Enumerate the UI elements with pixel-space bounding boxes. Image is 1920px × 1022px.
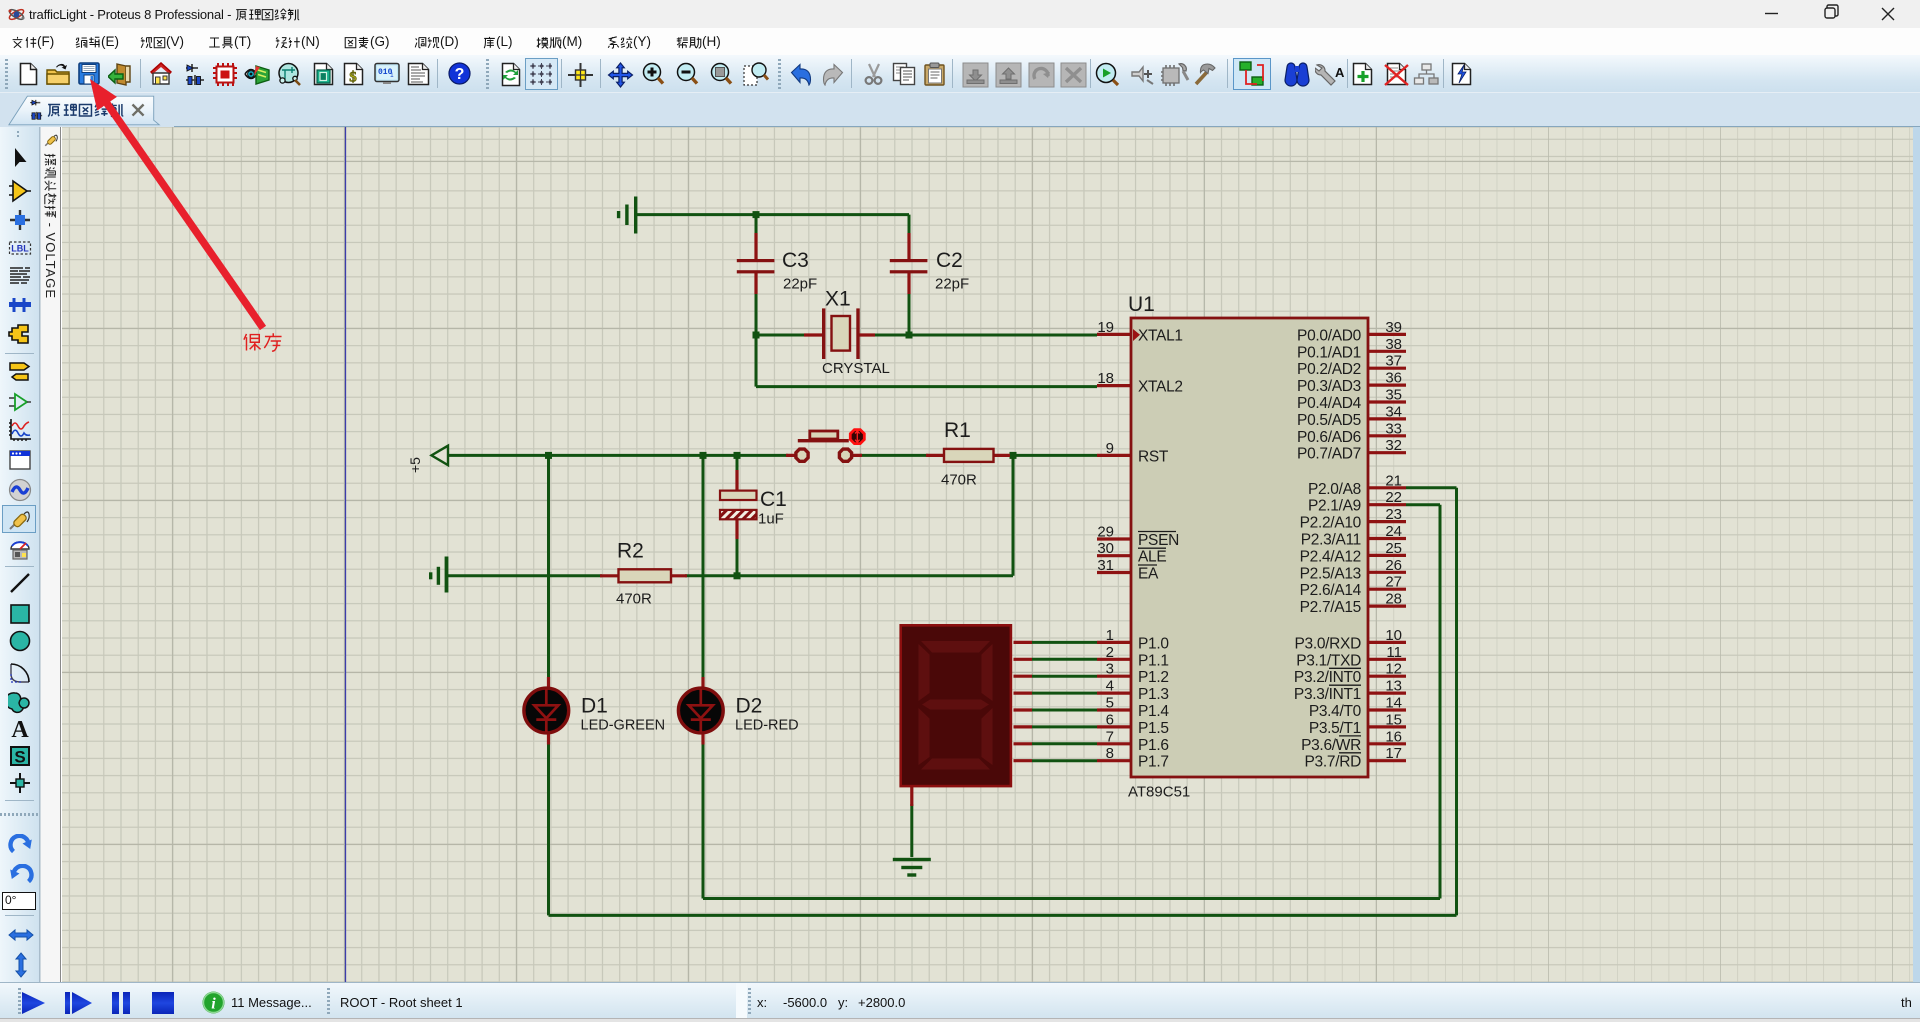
svg-text:P0.7/AD7: P0.7/AD7 (1297, 446, 1361, 463)
svg-text:XTAL1: XTAL1 (1138, 327, 1183, 344)
svg-text:R1: R1 (944, 419, 971, 442)
svg-text:28: 28 (1385, 591, 1402, 608)
svg-text:PSEN: PSEN (1138, 532, 1179, 549)
svg-text:C3: C3 (782, 249, 809, 272)
svg-text:S: S (14, 748, 25, 767)
svg-text:1: 1 (1106, 627, 1114, 644)
svg-text:22pF: 22pF (935, 276, 969, 293)
svg-text:27: 27 (1385, 574, 1402, 591)
svg-text:P3.2/INT0: P3.2/INT0 (1294, 669, 1362, 686)
svg-text:P0.6/AD6: P0.6/AD6 (1297, 429, 1361, 446)
svg-text:22: 22 (1385, 489, 1402, 506)
svg-text:37: 37 (1385, 353, 1402, 370)
svg-text:P0.1/AD1: P0.1/AD1 (1297, 344, 1361, 361)
svg-text:C2: C2 (936, 249, 963, 272)
svg-text:D1: D1 (581, 695, 608, 718)
svg-text:22pF: 22pF (783, 276, 817, 293)
svg-text:34: 34 (1385, 403, 1402, 420)
svg-text:P3.0/RXD: P3.0/RXD (1294, 635, 1361, 652)
svg-text:38: 38 (1385, 336, 1402, 353)
svg-text:D2: D2 (736, 695, 763, 718)
svg-text:21: 21 (1385, 472, 1402, 489)
svg-text:P2.6/A14: P2.6/A14 (1300, 582, 1362, 599)
svg-text:LED-RED: LED-RED (735, 718, 799, 734)
svg-text:18: 18 (1097, 370, 1114, 387)
svg-text:23: 23 (1385, 506, 1402, 523)
svg-text:17: 17 (1385, 745, 1402, 762)
svg-text:P1.3: P1.3 (1138, 686, 1169, 703)
svg-text:26: 26 (1385, 557, 1402, 574)
svg-text:2: 2 (1106, 644, 1114, 661)
svg-text:5: 5 (1106, 695, 1114, 712)
svg-text:35: 35 (1385, 387, 1402, 404)
svg-text:25: 25 (1385, 540, 1402, 557)
svg-text:P3.5/T1: P3.5/T1 (1309, 720, 1361, 737)
svg-text:29: 29 (1097, 524, 1114, 541)
svg-text:39: 39 (1385, 319, 1402, 336)
svg-text:P2.7/A15: P2.7/A15 (1300, 599, 1361, 616)
svg-text:AT89C51: AT89C51 (1128, 784, 1190, 801)
svg-text:31: 31 (1097, 557, 1114, 574)
svg-text:30: 30 (1097, 540, 1114, 557)
svg-text:1uF: 1uF (758, 511, 784, 528)
svg-text:P1.7: P1.7 (1138, 754, 1169, 771)
svg-text:P2.3/A11: P2.3/A11 (1301, 532, 1361, 549)
svg-text:XTAL2: XTAL2 (1138, 379, 1183, 396)
svg-text:P3.3/INT1: P3.3/INT1 (1294, 686, 1361, 703)
svg-text:P0.2/AD2: P0.2/AD2 (1297, 361, 1361, 378)
svg-text:P0.0/AD0: P0.0/AD0 (1297, 327, 1362, 344)
svg-text:LED-GREEN: LED-GREEN (581, 718, 666, 734)
svg-text:10: 10 (1385, 627, 1402, 644)
svg-text:470R: 470R (941, 472, 977, 489)
svg-text:470R: 470R (616, 591, 652, 608)
svg-text:P3.7/RD: P3.7/RD (1305, 754, 1362, 771)
svg-text:P1.6: P1.6 (1138, 737, 1169, 754)
svg-text:8: 8 (1106, 745, 1114, 762)
svg-text:LBL: LBL (11, 244, 29, 254)
svg-text:P3.4/T0: P3.4/T0 (1309, 703, 1362, 720)
svg-text:ALE: ALE (1138, 549, 1166, 566)
svg-text:16: 16 (1385, 728, 1402, 745)
svg-text:P1.4: P1.4 (1138, 703, 1169, 720)
svg-text:3: 3 (1106, 661, 1114, 678)
svg-text:14: 14 (1385, 695, 1402, 712)
svg-text:P2.5/A13: P2.5/A13 (1300, 565, 1361, 582)
svg-text:1: 1 (390, 72, 394, 79)
svg-text:U1: U1 (1128, 293, 1155, 316)
svg-text:7: 7 (1106, 728, 1114, 745)
svg-text:12: 12 (1385, 661, 1402, 678)
svg-text:i: i (211, 996, 216, 1013)
svg-text:15: 15 (1385, 711, 1402, 728)
svg-text:RST: RST (1138, 448, 1169, 465)
svg-text:32: 32 (1385, 437, 1402, 454)
svg-text:?: ? (455, 66, 465, 83)
svg-text:P0.3/AD3: P0.3/AD3 (1297, 378, 1361, 395)
svg-text:P1.2: P1.2 (1138, 669, 1169, 686)
svg-text:A: A (1335, 65, 1344, 80)
svg-text:P2.0/A8: P2.0/A8 (1308, 481, 1361, 498)
svg-text:P1.5: P1.5 (1138, 720, 1169, 737)
svg-text:C1: C1 (760, 488, 787, 511)
svg-text:24: 24 (1385, 523, 1402, 540)
svg-text:36: 36 (1385, 370, 1402, 387)
svg-text:P2.1/A9: P2.1/A9 (1308, 498, 1361, 515)
svg-text:$: $ (349, 70, 357, 86)
svg-text:P2.2/A10: P2.2/A10 (1300, 515, 1362, 532)
svg-text:+5: +5 (407, 457, 423, 473)
svg-text:CRYSTAL: CRYSTAL (822, 360, 890, 377)
svg-text:9: 9 (1106, 440, 1114, 457)
svg-text:R2: R2 (617, 540, 644, 563)
svg-text:P1.0: P1.0 (1138, 635, 1169, 652)
svg-text:P0.5/AD5: P0.5/AD5 (1297, 412, 1361, 429)
svg-text:P2.4/A12: P2.4/A12 (1300, 548, 1361, 565)
svg-text:11: 11 (1386, 644, 1402, 661)
svg-text:P3.1/TXD: P3.1/TXD (1296, 652, 1361, 669)
svg-text:A: A (11, 717, 29, 741)
svg-text:4: 4 (1106, 678, 1114, 695)
svg-text:19: 19 (1097, 319, 1114, 336)
svg-text:P1.1: P1.1 (1138, 652, 1169, 669)
svg-text:P0.4/AD4: P0.4/AD4 (1297, 395, 1362, 412)
svg-text:6: 6 (1106, 711, 1114, 728)
svg-text:13: 13 (1385, 678, 1402, 695)
svg-text:X1: X1 (825, 288, 851, 311)
svg-text:EA: EA (1138, 566, 1159, 583)
svg-text:33: 33 (1385, 420, 1402, 437)
svg-text:P3.6/WR: P3.6/WR (1301, 737, 1361, 754)
